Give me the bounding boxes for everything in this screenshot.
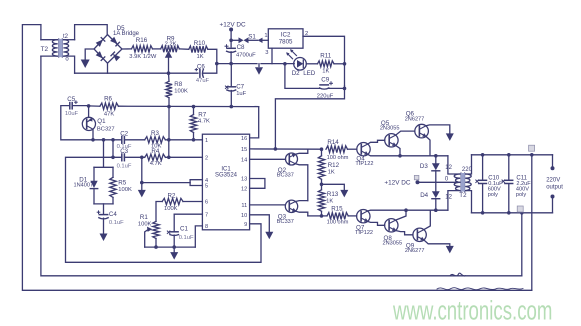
svg-text:1: 1 (264, 33, 267, 39)
svg-text:3.9K 1/2W: 3.9K 1/2W (129, 54, 157, 60)
svg-text:+12V DC: +12V DC (384, 180, 410, 187)
svg-text:C8: C8 (237, 44, 245, 51)
svg-text:www.cntronics.com: www.cntronics.com (392, 295, 552, 325)
svg-text:BC337: BC337 (277, 173, 294, 179)
svg-text:100K: 100K (164, 206, 178, 212)
svg-text:0.1uF: 0.1uF (179, 235, 194, 241)
svg-text:R12: R12 (328, 162, 340, 169)
svg-text:D2: D2 (292, 70, 300, 77)
svg-text:0.1uF: 0.1uF (109, 220, 124, 226)
svg-text:IC2: IC2 (281, 31, 291, 38)
svg-text:S1: S1 (248, 33, 256, 40)
svg-text:4.7K: 4.7K (198, 119, 210, 125)
svg-text:R16: R16 (136, 37, 148, 44)
svg-text:R3: R3 (151, 130, 159, 137)
svg-text:TIP122: TIP122 (355, 230, 373, 236)
svg-text:C4: C4 (109, 211, 117, 218)
svg-text:47K: 47K (104, 111, 114, 117)
svg-text:poly: poly (488, 192, 498, 198)
svg-text:1K: 1K (197, 54, 204, 60)
svg-text:Q1: Q1 (97, 118, 106, 125)
svg-text:R14: R14 (327, 139, 339, 146)
svg-text:R7: R7 (198, 112, 206, 119)
svg-text:15: 15 (241, 147, 247, 153)
svg-text:T2: T2 (459, 192, 467, 199)
svg-text:SG3524: SG3524 (215, 173, 238, 179)
svg-text:12: 12 (241, 186, 247, 192)
svg-text:D4: D4 (420, 192, 428, 199)
svg-text:4700uF: 4700uF (236, 52, 256, 58)
svg-text:12: 12 (445, 195, 452, 201)
svg-text:TIP122: TIP122 (355, 161, 373, 167)
svg-text:T2: T2 (41, 46, 49, 53)
svg-text:2N6277: 2N6277 (405, 116, 425, 122)
svg-text:t2: t2 (63, 34, 69, 40)
svg-text:output: output (546, 185, 563, 191)
svg-text:R6: R6 (104, 95, 112, 102)
svg-text:2.2K: 2.2K (165, 42, 177, 48)
svg-text:1N4007: 1N4007 (74, 183, 94, 189)
svg-text:220V: 220V (546, 178, 560, 184)
svg-text:C7: C7 (236, 84, 244, 91)
svg-text:13: 13 (241, 177, 247, 183)
svg-text:7: 7 (205, 212, 208, 218)
svg-text:2: 2 (205, 155, 208, 161)
svg-text:R1: R1 (140, 214, 148, 221)
svg-text:220: 220 (462, 167, 473, 173)
svg-text:0.1uF: 0.1uF (117, 164, 132, 170)
svg-text:3: 3 (265, 50, 268, 56)
svg-text:R8: R8 (174, 81, 182, 88)
svg-text:5: 5 (205, 184, 208, 190)
svg-text:C2: C2 (120, 130, 128, 137)
svg-text:2N3055: 2N3055 (380, 125, 400, 131)
svg-text:1: 1 (205, 138, 208, 144)
svg-text:R2: R2 (168, 193, 176, 200)
svg-text:C6: C6 (197, 63, 205, 70)
svg-text:LED: LED (303, 70, 316, 77)
svg-text:11: 11 (241, 203, 247, 209)
svg-text:BC337: BC337 (277, 219, 294, 225)
svg-text:220uF: 220uF (317, 94, 334, 100)
svg-text:10: 10 (241, 213, 247, 219)
svg-text:C3: C3 (120, 148, 128, 155)
svg-text:+12V DC: +12V DC (220, 22, 246, 29)
svg-text:2N3055: 2N3055 (383, 241, 403, 247)
svg-text:R11: R11 (320, 52, 331, 59)
svg-text:C9: C9 (321, 76, 329, 83)
svg-text:1K: 1K (322, 69, 329, 75)
svg-text:1K: 1K (328, 170, 335, 176)
svg-text:R4: R4 (151, 148, 159, 155)
svg-text:16: 16 (241, 136, 247, 142)
svg-text:100 ohm: 100 ohm (327, 155, 349, 161)
svg-text:C1: C1 (180, 225, 188, 232)
svg-text:47uF: 47uF (196, 78, 210, 84)
svg-text:poly: poly (516, 192, 526, 198)
svg-text:R10: R10 (194, 40, 206, 47)
svg-text:1uF: 1uF (236, 91, 246, 97)
svg-text:100K: 100K (138, 221, 152, 227)
svg-text:BC327: BC327 (97, 126, 115, 132)
svg-text:100 ohm: 100 ohm (327, 220, 349, 226)
svg-text:100K: 100K (118, 187, 132, 193)
svg-text:4.7K: 4.7K (150, 161, 162, 167)
svg-text:12: 12 (445, 165, 452, 171)
svg-text:2: 2 (305, 31, 308, 37)
svg-text:R15: R15 (331, 205, 343, 212)
svg-text:6: 6 (205, 200, 208, 206)
svg-text:7805: 7805 (279, 38, 293, 45)
svg-text:2N6277: 2N6277 (405, 248, 425, 254)
svg-text:R13: R13 (327, 191, 339, 198)
svg-text:C5: C5 (67, 96, 75, 103)
svg-text:14: 14 (241, 157, 247, 163)
svg-text:10uF: 10uF (65, 111, 79, 117)
svg-text:100K: 100K (174, 88, 188, 94)
svg-text:1K: 1K (326, 198, 333, 204)
svg-text:D3: D3 (420, 163, 428, 170)
svg-text:R5: R5 (118, 179, 126, 186)
svg-text:8: 8 (205, 224, 208, 230)
svg-text:9: 9 (244, 222, 247, 228)
